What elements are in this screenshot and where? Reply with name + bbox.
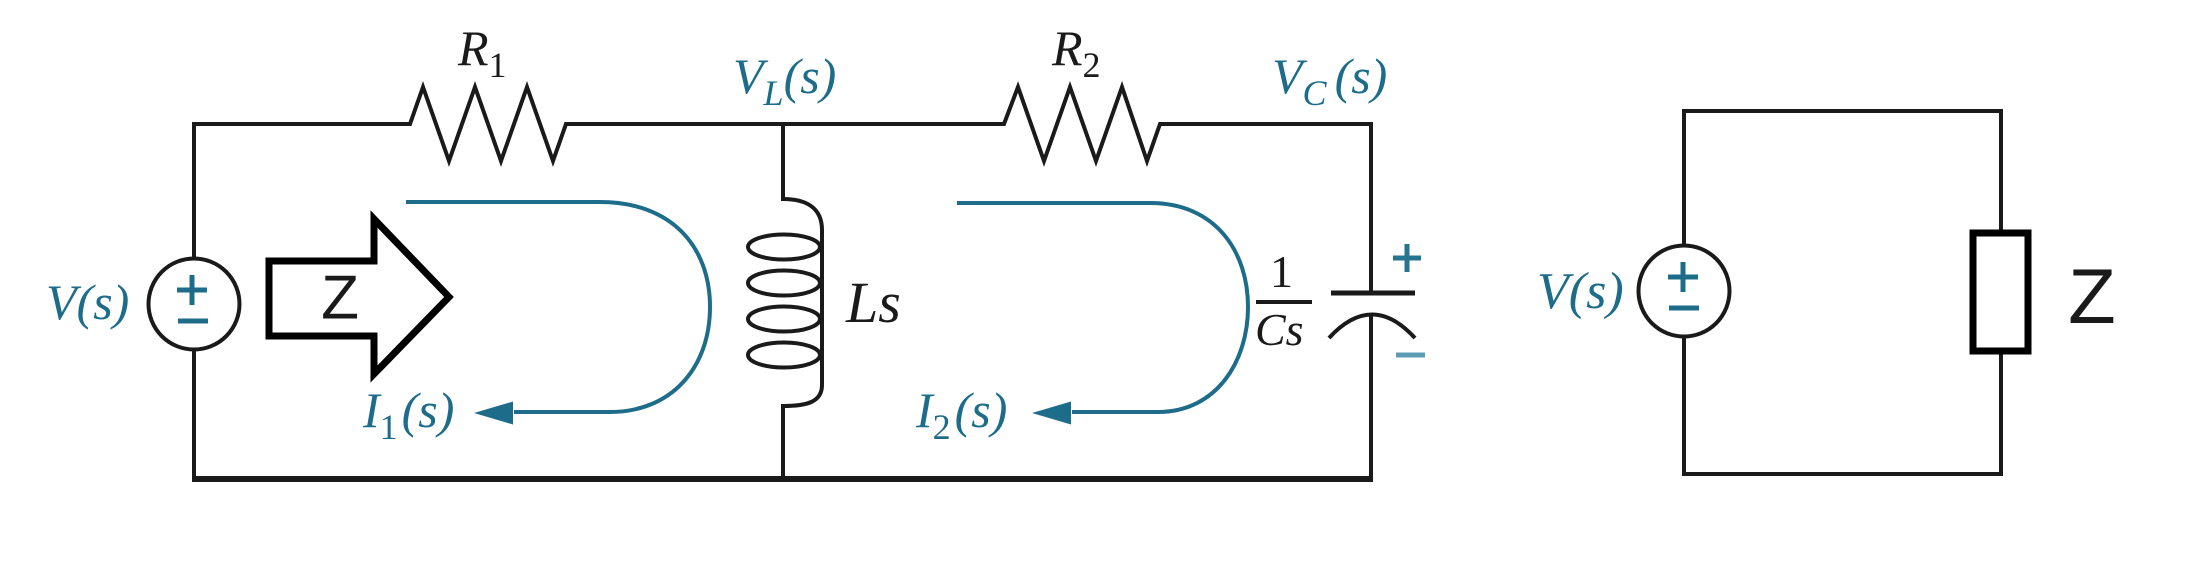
svg-text:Ls: Ls	[845, 270, 901, 335]
svg-text:Cs: Cs	[1255, 304, 1304, 355]
svg-text:Z: Z	[2068, 252, 2116, 340]
svg-text:V(s): V(s)	[46, 274, 129, 330]
svg-text:V(s): V(s)	[1537, 263, 1624, 320]
svg-text:1: 1	[1270, 246, 1293, 297]
svg-text:I1(s): I1(s)	[362, 382, 454, 447]
svg-text:Z: Z	[321, 264, 359, 333]
svg-text:I2(s): I2(s)	[915, 382, 1007, 447]
svg-text:VL(s): VL(s)	[733, 48, 836, 113]
